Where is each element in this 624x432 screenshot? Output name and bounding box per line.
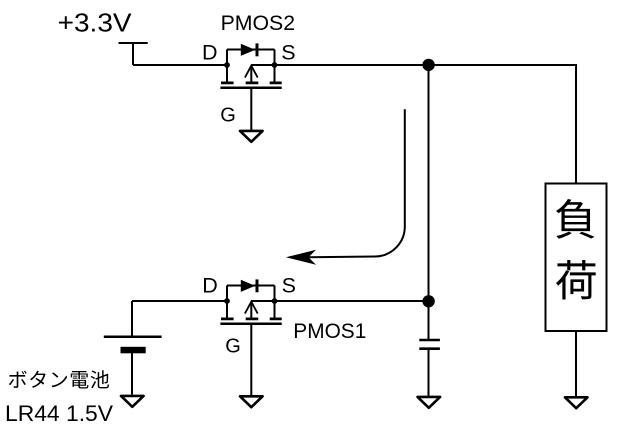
svg-text:+3.3V: +3.3V	[58, 8, 133, 38]
svg-text:PMOS1: PMOS1	[293, 319, 366, 343]
svg-text:D: D	[202, 40, 218, 64]
svg-text:G: G	[225, 336, 241, 358]
svg-text:G: G	[220, 105, 236, 127]
svg-text:LR44 1.5V: LR44 1.5V	[5, 401, 113, 426]
svg-text:D: D	[202, 274, 218, 298]
svg-text:S: S	[281, 40, 295, 64]
svg-text:PMOS2: PMOS2	[221, 11, 296, 35]
svg-text:S: S	[282, 274, 296, 298]
